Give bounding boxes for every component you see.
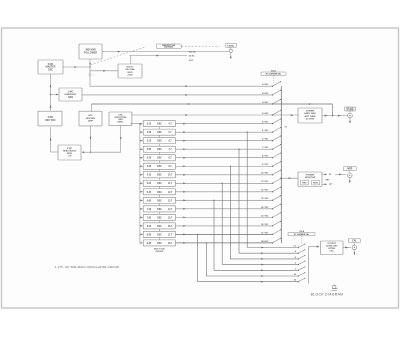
svg-text:.05: .05 xyxy=(293,274,296,276)
svg-text:9.7 MC: 9.7 MC xyxy=(262,164,269,166)
svg-text:7.35: 7.35 xyxy=(147,209,152,211)
svg-text:15.7 MC: 15.7 MC xyxy=(261,215,269,217)
svg-text:16.7: 16.7 xyxy=(168,226,173,228)
svg-text:1-175. UU THE MAIN OSCILLATO: 1-175. UU THE MAIN OSCILLATOR GROUP. xyxy=(55,265,120,269)
svg-text:MTR: MTR xyxy=(347,169,352,171)
svg-text:6.85: 6.85 xyxy=(147,200,152,202)
svg-text:8.35: 8.35 xyxy=(147,226,152,228)
svg-text:8.7 MC: 8.7 MC xyxy=(262,156,269,158)
svg-text:1 MC: 1 MC xyxy=(118,114,123,116)
svg-text:18.8 MC: 18.8 MC xyxy=(261,241,269,243)
svg-text:LEVEL SET: LEVEL SET xyxy=(326,246,338,248)
svg-text:5 MC: 5 MC xyxy=(48,117,54,119)
svg-text:5 MC: 5 MC xyxy=(67,148,73,150)
svg-text:3.5 MC: 3.5 MC xyxy=(262,113,269,115)
svg-text:OSC: OSC xyxy=(157,166,162,168)
svg-text:2ND MXR: 2ND MXR xyxy=(85,50,96,52)
svg-text:OSC: OSC xyxy=(157,183,162,185)
svg-text:OSC: OSC xyxy=(157,192,162,194)
svg-text:13.7: 13.7 xyxy=(168,200,173,202)
svg-text:3.0 MC: 3.0 MC xyxy=(262,102,269,104)
svg-text:17.7 MC: 17.7 MC xyxy=(261,232,269,234)
svg-text:12.7: 12.7 xyxy=(168,192,173,194)
svg-text:9.35: 9.35 xyxy=(147,243,152,245)
svg-text:600 KC: 600 KC xyxy=(189,51,197,53)
svg-text:OSC: OSC xyxy=(157,200,162,202)
svg-text:FOLLOWER: FOLLOWER xyxy=(84,53,97,55)
svg-text:500 KC: 500 KC xyxy=(126,67,134,69)
svg-text:15.7: 15.7 xyxy=(168,217,173,219)
svg-text:50 OHM: 50 OHM xyxy=(306,118,314,120)
svg-text:OSC: OSC xyxy=(157,234,162,236)
svg-text:16.7 MC: 16.7 MC xyxy=(261,224,269,226)
svg-text:1 MC: 1 MC xyxy=(68,91,74,93)
svg-text:.02: .02 xyxy=(293,280,296,282)
svg-text:OSC: OSC xyxy=(157,158,162,160)
svg-text:OSC: OSC xyxy=(157,141,162,143)
svg-text:13.7 MC: 13.7 MC xyxy=(261,198,269,200)
svg-text:OSC: OSC xyxy=(157,243,162,245)
svg-text:5 MC: 5 MC xyxy=(48,64,54,66)
svg-text:60 KC: 60 KC xyxy=(189,56,195,58)
svg-text:11.7 MC: 11.7 MC xyxy=(261,181,269,183)
svg-text:6 KC: 6 KC xyxy=(189,60,194,62)
svg-text:OSC: OSC xyxy=(157,217,162,219)
svg-text:17.7: 17.7 xyxy=(168,234,173,236)
svg-text:OSC: OSC xyxy=(48,69,53,71)
svg-text:7.85: 7.85 xyxy=(147,217,152,219)
svg-text:11.7: 11.7 xyxy=(168,183,173,185)
svg-text:18.7: 18.7 xyxy=(168,243,173,245)
svg-text:OSC: OSC xyxy=(157,132,162,134)
svg-text:2.0 MC: 2.0 MC xyxy=(262,84,269,86)
svg-text:MONITOR: MONITOR xyxy=(305,177,316,179)
svg-text:.8: .8 xyxy=(294,251,296,253)
svg-text:LEVEL: LEVEL xyxy=(228,45,235,47)
svg-text:REFL: REFL xyxy=(313,182,319,184)
svg-text:MULT OSC: MULT OSC xyxy=(154,248,166,250)
svg-text:MOD: MOD xyxy=(127,72,133,74)
svg-text:12.7 MC: 12.7 MC xyxy=(261,190,269,192)
svg-text:6.35: 6.35 xyxy=(147,192,152,194)
svg-text:OUTPUT: OUTPUT xyxy=(327,243,336,245)
svg-text:5.7 MC: 5.7 MC xyxy=(262,130,269,132)
svg-text:OSC: OSC xyxy=(157,209,162,211)
svg-text:2.5 MC: 2.5 MC xyxy=(262,93,269,95)
svg-text:10.7 MC: 10.7 MC xyxy=(261,173,269,175)
svg-text:POWER: POWER xyxy=(306,175,315,177)
svg-text:GEN: GEN xyxy=(68,97,73,99)
svg-text:.2: .2 xyxy=(294,263,296,265)
svg-text:2.35: 2.35 xyxy=(147,124,152,126)
svg-text:3.85: 3.85 xyxy=(147,149,152,151)
svg-text:SPECTRUM: SPECTRUM xyxy=(115,117,127,119)
svg-text:REF OSC: REF OSC xyxy=(45,120,56,122)
svg-text:6.7 MC: 6.7 MC xyxy=(262,139,269,141)
svg-text:.1: .1 xyxy=(294,268,296,270)
svg-text:1.6: 1.6 xyxy=(293,246,296,248)
svg-text:OSC: OSC xyxy=(157,226,162,228)
svg-text:FWD: FWD xyxy=(302,182,307,184)
svg-text:OSC: OSC xyxy=(157,149,162,151)
svg-text:GROUP: GROUP xyxy=(155,251,164,253)
svg-text:OSC: OSC xyxy=(157,175,162,177)
svg-text:DISCRIM: DISCRIM xyxy=(86,118,95,120)
svg-text:5.85: 5.85 xyxy=(147,183,152,185)
svg-text:BLOCK DIAGRAM: BLOCK DIAGRAM xyxy=(311,293,344,297)
svg-text:5.35: 5.35 xyxy=(147,175,152,177)
svg-text:8.85: 8.85 xyxy=(147,234,152,236)
svg-text:GEN: GEN xyxy=(118,119,123,121)
svg-text:MOD: MOD xyxy=(67,153,73,155)
svg-text:OSC: OSC xyxy=(157,124,162,126)
svg-text:POWER: POWER xyxy=(306,111,315,113)
svg-text:7.7 MC: 7.7 MC xyxy=(262,147,269,149)
svg-text:2 BU: 2 BU xyxy=(128,74,133,76)
svg-text:2.85: 2.85 xyxy=(147,132,152,134)
svg-text:3.35: 3.35 xyxy=(147,141,152,143)
svg-text:10.7: 10.7 xyxy=(168,175,173,177)
